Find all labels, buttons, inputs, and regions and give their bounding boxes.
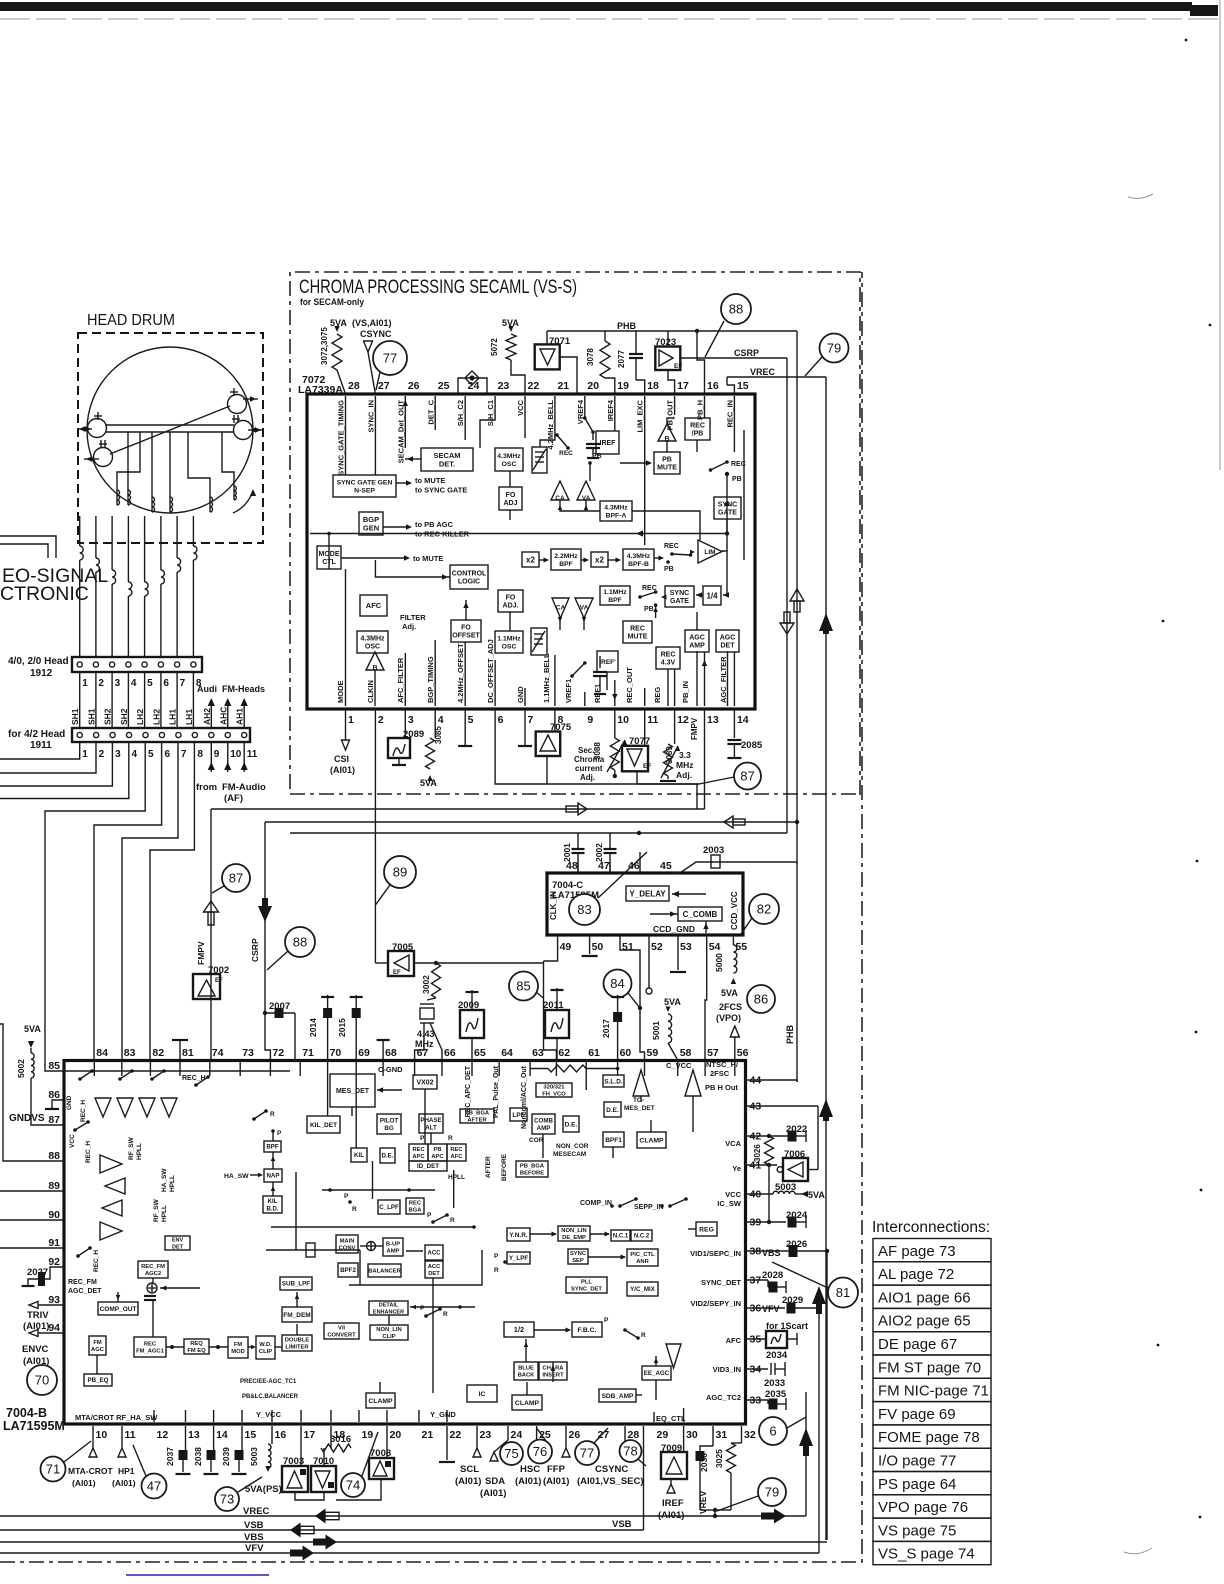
svg-text:Interconnections:: Interconnections: <box>872 1219 990 1236</box>
svg-text:28: 28 <box>348 380 360 392</box>
block ID_DET <box>409 1161 447 1171</box>
wire 7005 output to pin49 node <box>414 962 544 964</box>
svg-text:SEPP_IN: SEPP_IN <box>634 1204 664 1211</box>
capacitor 2085 <box>733 709 735 738</box>
block x2 first <box>522 552 539 567</box>
svg-text:EF: EF <box>393 970 401 976</box>
wire 1911 pin3 to left edge <box>0 742 112 786</box>
wire fo adj2 bell <box>509 612 511 631</box>
svg-text:AH1: AH1 <box>235 708 245 725</box>
svg-text:APC: APC <box>431 1154 444 1160</box>
wire left edge to IC 7004-B pin 90 <box>0 1219 64 1221</box>
node VS page 75 <box>873 1518 991 1541</box>
svg-text:5VA: 5VA <box>24 1024 41 1034</box>
svg-text:IC_SW: IC_SW <box>717 1199 742 1208</box>
svg-text:23: 23 <box>480 1429 492 1441</box>
svg-text:7004-B: 7004-B <box>6 1406 47 1420</box>
block AFC <box>360 595 387 616</box>
svg-text:HP1: HP1 <box>118 1466 135 1476</box>
wire pin6 dc offset <box>494 660 496 706</box>
svg-text:86: 86 <box>48 1089 60 1101</box>
svg-text:26: 26 <box>408 380 420 392</box>
svg-text:HEAD DRUM: HEAD DRUM <box>87 312 175 329</box>
ground pin50 <box>589 935 591 954</box>
svg-text:CONTROL: CONTROL <box>452 570 487 577</box>
wire lim chain <box>726 534 728 552</box>
svg-text:91: 91 <box>48 1237 60 1249</box>
wire fmdem up <box>296 1292 298 1307</box>
svg-text:V/I: V/I <box>338 1326 345 1332</box>
wires from FM-Audio (AF) <box>210 742 212 772</box>
block half 1/2 <box>504 1322 534 1337</box>
svg-text:75: 75 <box>504 1446 518 1461</box>
svg-text:HPLL: HPLL <box>136 1143 143 1160</box>
svg-text:VREF1: VREF1 <box>564 679 573 703</box>
leader 85 <box>536 992 544 998</box>
svg-text:2037: 2037 <box>165 1447 175 1466</box>
signal SDA pin24 <box>507 1426 509 1440</box>
svg-text:4.2MHz_OFFSET: 4.2MHz_OFFSET <box>456 643 465 703</box>
svg-text:FM: FM <box>93 1340 102 1346</box>
injector arrow right <box>685 1070 701 1096</box>
wire pin14 agc filter <box>733 652 735 706</box>
wire clamp up right <box>650 1120 652 1132</box>
svg-text:8: 8 <box>197 749 203 760</box>
node FOME page 78 <box>873 1425 991 1448</box>
svg-text:MES_DET: MES_DET <box>336 1088 370 1095</box>
node AL page 72 <box>873 1262 991 1285</box>
svg-text:HPLL: HPLL <box>448 1174 465 1181</box>
svg-text:CLAMP: CLAMP <box>368 1398 393 1405</box>
svg-text:FM-Heads: FM-Heads <box>222 684 265 694</box>
wire reg stub <box>688 1228 696 1230</box>
amp rec buffer 1 <box>100 1155 122 1173</box>
wire fmagc to pbeq <box>96 1355 98 1374</box>
svg-text:20: 20 <box>587 380 599 392</box>
switch VREF1 (pin9) <box>584 692 586 706</box>
svg-text:CONV: CONV <box>339 1246 356 1252</box>
svg-text:ADJ: ADJ <box>503 500 517 507</box>
svg-text:GND: GND <box>66 1095 73 1110</box>
svg-text:58: 58 <box>680 1047 692 1059</box>
callout 77 bottom <box>575 1441 599 1465</box>
block REG <box>696 1222 717 1236</box>
svg-text:R: R <box>443 1311 448 1318</box>
svg-text:11: 11 <box>647 714 658 726</box>
svg-text:COR: COR <box>529 1137 544 1144</box>
svg-text:to MUTE: to MUTE <box>415 476 445 485</box>
leader 77 <box>376 372 380 390</box>
wire vx02 down <box>424 1089 426 1144</box>
svg-text:CLAMP: CLAMP <box>515 1400 540 1407</box>
svg-text:3078: 3078 <box>586 348 595 366</box>
svg-text:11: 11 <box>247 749 258 760</box>
svg-text:from: from <box>196 782 217 793</box>
svg-text:AGC: AGC <box>689 634 705 641</box>
svg-text:25: 25 <box>438 380 450 392</box>
callout 81 <box>828 1278 858 1308</box>
svg-text:REC_FM: REC_FM <box>141 1264 165 1270</box>
leader 79 bottom <box>717 1496 758 1511</box>
svg-text:EQ_CTL: EQ_CTL <box>656 1414 686 1423</box>
wire pin28 to sync gate gen <box>345 396 347 475</box>
svg-text:4.2MHz_BELL: 4.2MHz_BELL <box>546 400 555 450</box>
svg-text:C_VCC: C_VCC <box>666 1061 692 1070</box>
svg-text:PB: PB <box>644 606 654 613</box>
wire chara up <box>552 1362 554 1382</box>
svg-text:PB H Out: PB H Out <box>705 1083 738 1092</box>
wire triangle57 down <box>692 1096 694 1132</box>
svg-text:SCL: SCL <box>460 1464 479 1475</box>
svg-text:1: 1 <box>348 714 354 726</box>
svg-text:NTSC_H/: NTSC_H/ <box>706 1060 739 1069</box>
svg-text:VS page 75: VS page 75 <box>878 1522 956 1539</box>
svg-text:GNDVS: GNDVS <box>9 1113 45 1124</box>
svg-text:P: P <box>420 1305 425 1312</box>
svg-text:46: 46 <box>628 860 640 872</box>
svg-text:3088: 3088 <box>593 742 602 760</box>
wire pin29 stub <box>653 1412 655 1422</box>
signal HSC pin25 <box>536 1426 538 1448</box>
svg-text:CONVERT: CONVERT <box>327 1333 356 1339</box>
svg-text:(AI01): (AI01) <box>330 765 355 775</box>
svg-text:VBS: VBS <box>762 1248 781 1258</box>
svg-text:5003: 5003 <box>249 1447 259 1466</box>
svg-text:D.E.: D.E. <box>565 1121 578 1128</box>
svg-text:REC: REC <box>450 1147 463 1153</box>
svg-text:LH1: LH1 <box>168 709 178 725</box>
node AF page 73 <box>873 1239 991 1262</box>
svg-text:4: 4 <box>438 714 444 726</box>
leader 87 mid <box>212 886 224 893</box>
svg-text:(VS,AI01): (VS,AI01) <box>352 318 392 328</box>
svg-text:22: 22 <box>450 1429 462 1441</box>
svg-text:BG: BG <box>384 1125 393 1132</box>
svg-text:61: 61 <box>588 1047 600 1059</box>
svg-text:F.B.C.: F.B.C. <box>578 1327 597 1334</box>
svg-text:PHASE: PHASE <box>420 1117 441 1124</box>
wire wdclip fmmod <box>248 1346 254 1348</box>
block MES_DET <box>330 1074 375 1107</box>
svg-text:6: 6 <box>769 1424 776 1439</box>
wire pin24 s/h c2 <box>464 396 466 440</box>
wire pin13 pb in <box>704 652 706 706</box>
svg-text:MUTE: MUTE <box>657 465 677 472</box>
svg-text:50: 50 <box>592 941 604 953</box>
svg-text:DE page 67: DE page 67 <box>878 1336 957 1353</box>
svg-text:3002: 3002 <box>421 975 431 994</box>
block SYNC GATE (playback) <box>665 586 694 607</box>
svg-text:CSRP: CSRP <box>250 938 260 962</box>
svg-text:B-UP: B-UP <box>386 1242 400 1248</box>
op-amp U7004-C LA71595M outline <box>547 873 743 935</box>
svg-text:OFFSET: OFFSET <box>452 633 480 640</box>
wire half to FBC <box>534 1329 570 1331</box>
svg-text:CLIP: CLIP <box>382 1334 395 1340</box>
wire pin41 Ye to 7006 <box>746 1164 778 1166</box>
svg-text:IREF: IREF <box>600 440 617 447</box>
wire bpf1 down <box>612 1147 614 1158</box>
svg-text:REG: REG <box>699 1226 714 1233</box>
block Y_LPF <box>507 1252 530 1264</box>
svg-text:4.43: 4.43 <box>417 1029 435 1039</box>
amp rec buffer 4 <box>100 1222 122 1240</box>
svg-text:DC_OFFSET_ADJ: DC_OFFSET_ADJ <box>486 639 495 703</box>
wire pin34 VID3_IN <box>746 1368 769 1370</box>
block D.E. upper <box>604 1102 621 1117</box>
callout 79 bottom <box>758 1478 786 1506</box>
callout 88 mid <box>285 927 315 957</box>
svg-text:VCA: VCA <box>725 1139 741 1148</box>
svg-text:FILTER: FILTER <box>400 613 426 622</box>
svg-text:(AI01): (AI01) <box>543 1476 569 1487</box>
svg-text:Y_GND: Y_GND <box>430 1410 456 1419</box>
svg-text:4.3MHz: 4.3MHz <box>604 504 628 511</box>
head drum cylinder <box>87 347 253 513</box>
svg-text:(AI01): (AI01) <box>455 1476 481 1487</box>
wire pin1 mode <box>345 569 347 706</box>
node VPO page 76 <box>873 1495 991 1518</box>
svg-text:FH_VCO: FH_VCO <box>542 1092 566 1098</box>
svg-text:PS page 64: PS page 64 <box>878 1476 956 1493</box>
svg-text:16: 16 <box>275 1429 287 1441</box>
switch REC/PB near pin15 <box>709 468 713 472</box>
svg-text:C-GND: C-GND <box>378 1065 403 1074</box>
callout 87 chroma <box>734 763 761 790</box>
block REC 4.3V <box>656 647 680 669</box>
svg-text:19: 19 <box>617 380 629 392</box>
wire sync gate rec output <box>726 519 728 534</box>
svg-text:70: 70 <box>35 1373 49 1388</box>
wire pin10 rec out <box>614 680 616 706</box>
block MODE CTL <box>317 546 341 569</box>
svg-text:(AI01): (AI01) <box>72 1478 96 1488</box>
ground GNDVS on pin 86 <box>52 1100 64 1109</box>
callout 84 <box>604 970 632 998</box>
wire 1911 pin2 to left edge <box>0 742 96 773</box>
svg-text:VID2/SEPY_IN: VID2/SEPY_IN <box>691 1299 741 1308</box>
svg-text:N-SEP: N-SEP <box>354 487 375 494</box>
svg-text:85: 85 <box>48 1060 60 1072</box>
svg-text:EF: EF <box>674 363 682 370</box>
wire pin54 down <box>705 935 707 1060</box>
wire rec/pb down <box>696 440 698 452</box>
svg-text:4: 4 <box>131 678 137 689</box>
svg-text:AFC: AFC <box>451 1154 464 1160</box>
svg-text:AFTER: AFTER <box>467 1118 487 1124</box>
wire 1911 pin1 to left edge <box>0 742 80 759</box>
svg-text:62: 62 <box>558 1047 570 1059</box>
svg-text:77: 77 <box>580 1446 594 1461</box>
wire agc amp up <box>696 612 698 630</box>
amp vid3 down triangle <box>666 1344 681 1368</box>
svg-text:47: 47 <box>147 1479 161 1494</box>
wire pin5 to fo offset <box>464 642 466 706</box>
svg-text:AIO2 page 65: AIO2 page 65 <box>878 1313 971 1330</box>
svg-text:20: 20 <box>390 1429 402 1441</box>
svg-text:93: 93 <box>48 1294 60 1306</box>
svg-text:TO-: TO- <box>633 1097 644 1104</box>
wire pin22 vcc <box>524 396 526 438</box>
svg-text:SUB_LPF: SUB_LPF <box>282 1281 310 1288</box>
node FM ST page 70 <box>873 1355 991 1378</box>
svg-text:74: 74 <box>346 1478 360 1493</box>
wire feedback long left arrow <box>310 533 727 535</box>
wire pin35 AFC to filter 2034 <box>746 1338 767 1340</box>
node DE page 67 <box>873 1332 991 1355</box>
svg-text:2.2MHz: 2.2MHz <box>554 553 578 560</box>
svg-text:89: 89 <box>48 1180 60 1192</box>
svg-text:for 1Scart: for 1Scart <box>766 1321 808 1331</box>
svg-text:PIC_CTL: PIC_CTL <box>630 1252 655 1258</box>
svg-text:6: 6 <box>498 714 504 726</box>
svg-text:R: R <box>352 1206 357 1213</box>
svg-text:83: 83 <box>577 902 591 917</box>
op-amp U7072 LA7339A outline <box>307 394 755 709</box>
callout 79 top <box>820 334 849 363</box>
svg-text:(AI01): (AI01) <box>112 1478 136 1488</box>
signal ENVC (AIO1) from pin 94 <box>38 1332 64 1334</box>
wire comp_out in <box>117 1292 119 1302</box>
svg-text:89: 89 <box>393 865 407 880</box>
current source IREF <box>596 431 619 454</box>
block PILOT BG <box>377 1114 401 1134</box>
wire interior y1250 with delay element <box>266 1249 360 1251</box>
wire pin16 to REC/PB <box>704 396 706 418</box>
op-amp U7004-B LA71595M outline <box>64 1061 746 1425</box>
wire head crossover diagonal <box>110 406 230 454</box>
svg-text:LH2: LH2 <box>151 709 161 725</box>
signal MTA-CROT pin10 <box>92 1426 94 1448</box>
block NON_LIN DE_EMP <box>558 1226 590 1241</box>
block REC/PB select <box>685 418 710 440</box>
svg-text:53: 53 <box>680 941 692 953</box>
svg-text:REC_FM: REC_FM <box>68 1279 97 1286</box>
wire head bus lower <box>105 431 234 433</box>
signal CSYNC pin28 <box>624 1426 626 1442</box>
svg-text:CHROMA PROCESSING SECAML (VS-S: CHROMA PROCESSING SECAML (VS-S) <box>299 276 577 298</box>
callout 75 <box>500 1442 523 1465</box>
svg-text:4.3MHz: 4.3MHz <box>497 453 521 460</box>
wire pin49 to 7005 node <box>544 935 558 961</box>
svg-text:PILOT: PILOT <box>380 1118 398 1125</box>
svg-text:REC_H: REC_H <box>93 1250 100 1272</box>
svg-text:CSYNC: CSYNC <box>360 329 392 339</box>
svg-text:10: 10 <box>617 714 629 726</box>
svg-text:5001: 5001 <box>651 1021 661 1040</box>
wire pin23 s/h c1 <box>480 396 495 448</box>
svg-text:SYNC_IN: SYNC_IN <box>366 400 375 433</box>
block DETAIL ENHANCER <box>369 1301 408 1315</box>
video head B (lower-left) <box>94 448 113 467</box>
svg-text:DET: DET <box>428 1271 440 1277</box>
svg-text:4.3MHz: 4.3MHz <box>360 635 385 642</box>
wire NAP column vertical <box>295 1172 297 1250</box>
block REC APC <box>409 1144 428 1161</box>
block 1.1MHz BPF <box>600 586 630 605</box>
svg-text:DOUBLE: DOUBLE <box>285 1338 310 1344</box>
svg-text:PB: PB <box>433 1147 441 1153</box>
block FM AGC <box>89 1336 106 1355</box>
svg-text:REC: REC <box>661 651 676 658</box>
svg-text:BLUE: BLUE <box>518 1366 534 1372</box>
svg-text:1/4: 1/4 <box>706 591 718 600</box>
svg-text:2035: 2035 <box>765 1389 787 1400</box>
block ACC <box>425 1245 443 1260</box>
svg-text:PB&LC.BALANCER: PB&LC.BALANCER <box>242 1394 299 1400</box>
svg-text:65: 65 <box>474 1047 486 1059</box>
switch rec_h mid <box>73 1128 77 1132</box>
stub pin81 tee <box>179 1040 181 1060</box>
svg-text:81: 81 <box>836 1285 850 1300</box>
svg-text:7: 7 <box>180 678 186 689</box>
svg-text:VCC: VCC <box>69 1134 76 1148</box>
wire pin48 stub <box>577 862 579 873</box>
svg-text:68: 68 <box>385 1047 397 1059</box>
wire pin3 afc filter <box>404 653 406 706</box>
svg-text:31: 31 <box>716 1429 728 1441</box>
label to PB AGC / to REC KILLER <box>383 526 410 528</box>
svg-text:14: 14 <box>216 1429 228 1441</box>
wire control logic inputs <box>375 560 450 577</box>
svg-text:N.C.2: N.C.2 <box>634 1234 650 1240</box>
block REC_FM AGC2 <box>138 1261 168 1278</box>
svg-text:VCC: VCC <box>725 1190 741 1199</box>
svg-text:FM ST page 70: FM ST page 70 <box>878 1359 981 1376</box>
svg-text:REC: REC <box>412 1147 425 1153</box>
svg-text:AF page 73: AF page 73 <box>878 1243 956 1260</box>
svg-text:HA_SW: HA_SW <box>224 1173 249 1180</box>
wire 7005 input from CLKIN <box>375 962 388 964</box>
svg-text:AGC_FILTER: AGC_FILTER <box>719 656 728 703</box>
svg-text:BALANCER: BALANCER <box>368 1269 401 1275</box>
svg-text:ACC: ACC <box>428 1251 442 1257</box>
svg-text:AL page 72: AL page 72 <box>878 1266 954 1283</box>
block divider 1/4 <box>703 586 721 605</box>
ground pin53 <box>677 935 679 970</box>
block ACC DET <box>425 1261 443 1278</box>
svg-text:87: 87 <box>229 871 243 886</box>
svg-text:PB_EQ: PB_EQ <box>88 1377 109 1384</box>
block BPF <box>264 1141 281 1152</box>
svg-text:BPF: BPF <box>608 597 622 604</box>
block S.L.D. <box>603 1075 624 1087</box>
callout 74 <box>341 1473 365 1497</box>
svg-text:49: 49 <box>560 941 572 953</box>
svg-text:7: 7 <box>181 749 187 760</box>
svg-text:REG: REG <box>653 687 662 703</box>
svg-text:CCD_VCC: CCD_VCC <box>730 891 739 930</box>
buffer B (pin17) <box>658 424 676 441</box>
svg-text:BGA: BGA <box>409 1208 423 1214</box>
wire 1911 pin6 to IC 7004-B pin 84 <box>94 742 162 1060</box>
svg-text:B.D.: B.D. <box>267 1206 279 1212</box>
svg-text:CLAMP: CLAMP <box>639 1137 664 1144</box>
svg-text:OSC: OSC <box>365 644 380 651</box>
svg-text:17: 17 <box>677 380 689 392</box>
svg-text:to PB AGC: to PB AGC <box>415 520 454 529</box>
svg-text:21: 21 <box>557 380 569 392</box>
wire NONLIN to NC1 <box>590 1233 609 1235</box>
wire rec43 down <box>667 669 669 706</box>
svg-text:FMPV: FMPV <box>690 717 699 740</box>
svg-text:2077: 2077 <box>617 350 626 368</box>
block x2 second <box>591 552 608 567</box>
wire line A FMPV horizontal <box>211 808 705 810</box>
switch VREF4 (pin20) <box>584 396 586 418</box>
block 320/321 FH_VCO <box>536 1083 572 1097</box>
block SUB_LPF <box>280 1277 312 1290</box>
